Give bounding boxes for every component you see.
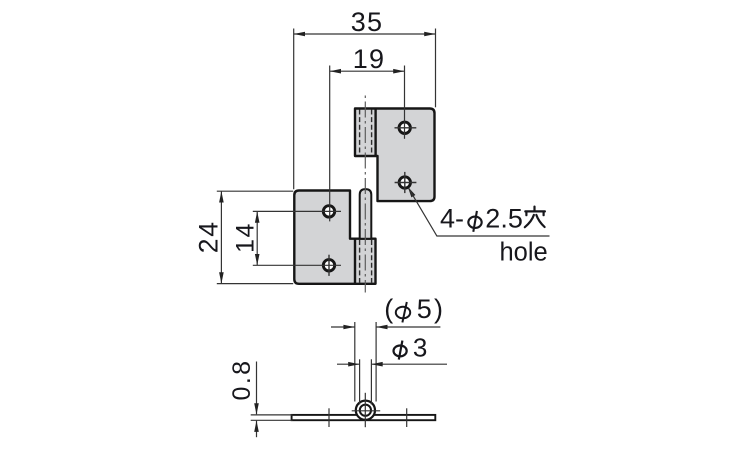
dimension 19 extension line right xyxy=(404,66,406,139)
leader arrow at hole H2 xyxy=(408,187,416,198)
leaf B knuckle joint line xyxy=(354,239,356,284)
dimension 14 extension line bottom (through hole H4) xyxy=(253,264,341,266)
svg-text:24: 24 xyxy=(194,220,224,253)
dimension phi3 text xyxy=(413,333,427,363)
barrel crosshair vertical xyxy=(364,393,366,427)
barrel crosshair horizontal xyxy=(352,410,381,412)
svg-text:5: 5 xyxy=(417,294,432,324)
dimension 14 line with arrows xyxy=(255,211,260,265)
barrel outer circle (side view) xyxy=(356,401,375,420)
svg-text:14: 14 xyxy=(231,222,259,253)
dimension phi5 line with outside arrows xyxy=(331,325,440,330)
dimension 35 extension line right xyxy=(435,29,437,108)
hole H3 (leaf B upper) xyxy=(323,206,334,217)
side view hole centerline tick left xyxy=(328,408,330,427)
callout text 4-phi2.5 xyxy=(440,204,523,234)
side view hole centerline tick right xyxy=(406,408,408,427)
dimension phi3 line with outside arrows xyxy=(337,362,447,367)
leaf B knuckle hidden line right xyxy=(371,240,373,283)
dimension 24 text (rotated) xyxy=(194,220,224,253)
dimension 19 text xyxy=(353,44,385,74)
leaf A knuckle hidden line left xyxy=(359,110,361,156)
(phi5) phi symbol xyxy=(396,302,410,322)
svg-text:hole: hole xyxy=(500,239,548,267)
dimension 24 extension line top xyxy=(217,190,293,192)
phi3 extension line right xyxy=(370,359,372,404)
hole H1 (leaf A upper) xyxy=(395,122,417,133)
leader line to callout xyxy=(409,188,550,236)
dimension 19 line with arrows xyxy=(330,69,405,74)
dimension 0.8 text (rotated) xyxy=(228,359,256,401)
dimension 24 extension line bottom xyxy=(217,283,293,285)
leaf B body (bottom-left leaf, top view) xyxy=(294,191,375,284)
phi5 extension line left xyxy=(354,322,356,402)
phi5 extension line right xyxy=(375,322,377,402)
side view plate xyxy=(292,415,436,420)
leaf B knuckle hidden line left xyxy=(359,240,361,283)
callout kanji ana (hole) drawn strokes xyxy=(525,207,545,228)
svg-text:35: 35 xyxy=(351,7,383,37)
svg-text:0.8: 0.8 xyxy=(228,359,256,401)
dimension 35 line with arrows xyxy=(294,32,436,37)
svg-text:2.5: 2.5 xyxy=(485,204,523,234)
hole H4 (leaf B lower) xyxy=(323,255,334,276)
dimension 35 text xyxy=(351,7,383,37)
dimension 19 extension line left xyxy=(329,66,331,222)
svg-text:4-: 4- xyxy=(440,204,464,234)
dimension 0.8 line with outside arrows xyxy=(254,362,259,438)
dimension 0.8 extension line bottom xyxy=(251,419,293,421)
phi3 extension line left xyxy=(359,359,361,404)
leaf A body (top-right leaf, top view) xyxy=(355,109,435,202)
hole H2 (leaf A lower) xyxy=(395,172,417,193)
centerline pin axis (top view) xyxy=(364,93,366,293)
dimension 14 text (rotated) xyxy=(231,222,259,253)
leaf A knuckle joint line xyxy=(374,109,376,157)
dimension (phi5) text xyxy=(384,294,443,324)
dimension 0.8 extension line top xyxy=(251,414,293,416)
barrel inner circle (side view) xyxy=(360,405,371,416)
callout phi symbol xyxy=(468,211,481,232)
svg-text:3: 3 xyxy=(413,333,427,363)
phi3 phi symbol xyxy=(394,341,407,360)
dimension 24 line with arrows xyxy=(219,191,224,283)
hinge pin (top view) xyxy=(360,189,372,239)
svg-text:19: 19 xyxy=(353,44,385,74)
dimension 35 extension line left xyxy=(293,29,295,190)
callout text hole xyxy=(500,239,548,267)
leaf A knuckle hidden line right xyxy=(371,110,373,156)
svg-text:): ) xyxy=(434,294,443,324)
dimension 14 extension line top (through hole H3) xyxy=(253,210,341,212)
svg-text:(: ( xyxy=(384,294,393,324)
